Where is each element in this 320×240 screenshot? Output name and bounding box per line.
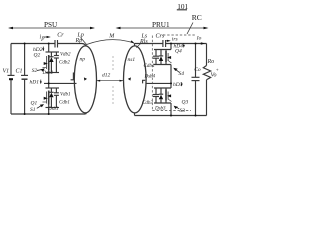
svg-text:C1: C1 (16, 68, 23, 74)
svg-text:Vdb1: Vdb1 (60, 92, 71, 97)
svg-text:PSU: PSU (44, 21, 58, 29)
svg-text:Dsb2: Dsb2 (42, 71, 54, 76)
svg-text:Cdb2: Cdb2 (59, 61, 70, 66)
svg-text:Q4: Q4 (175, 47, 182, 54)
svg-text:Io: Io (196, 35, 202, 41)
svg-text:hD3: hD3 (173, 82, 183, 88)
svg-text:d12: d12 (102, 73, 111, 79)
svg-text:Q2: Q2 (34, 52, 41, 58)
svg-text:V1: V1 (3, 68, 10, 74)
svg-text:Cdb3: Cdb3 (142, 101, 153, 106)
svg-text:Dsb3: Dsb3 (154, 107, 166, 112)
svg-text:Cdb4: Cdb4 (144, 64, 155, 69)
svg-text:PRU1: PRU1 (152, 21, 170, 29)
svg-text:Crs: Crs (156, 34, 165, 40)
svg-text:Dsb1: Dsb1 (47, 107, 59, 112)
svg-text:np: np (80, 57, 86, 63)
svg-text:101: 101 (177, 2, 188, 11)
svg-text:hD1: hD1 (30, 80, 40, 86)
svg-text:Ro: Ro (207, 59, 215, 65)
svg-text:Rp: Rp (75, 38, 83, 44)
svg-text:S3: S3 (180, 108, 186, 114)
svg-text:Cr: Cr (57, 33, 64, 39)
svg-text:Cdb1: Cdb1 (59, 101, 70, 106)
svg-text:irs: irs (172, 36, 178, 42)
svg-text:ns1: ns1 (128, 57, 136, 63)
svg-text:Rls: Rls (139, 39, 148, 45)
svg-text:S1: S1 (30, 107, 36, 113)
svg-text:p: p (41, 35, 45, 41)
svg-text:+: + (216, 69, 219, 74)
svg-text:Q3: Q3 (182, 99, 189, 105)
svg-text:Q1: Q1 (31, 101, 38, 107)
svg-text:M: M (108, 33, 115, 39)
svg-text:S4: S4 (179, 70, 185, 77)
svg-text:RC: RC (192, 13, 202, 22)
svg-text:S2: S2 (32, 68, 38, 74)
svg-text:Dsb4: Dsb4 (144, 75, 156, 80)
svg-text:Co: Co (194, 67, 201, 73)
svg-text:Vdb2: Vdb2 (60, 53, 71, 58)
